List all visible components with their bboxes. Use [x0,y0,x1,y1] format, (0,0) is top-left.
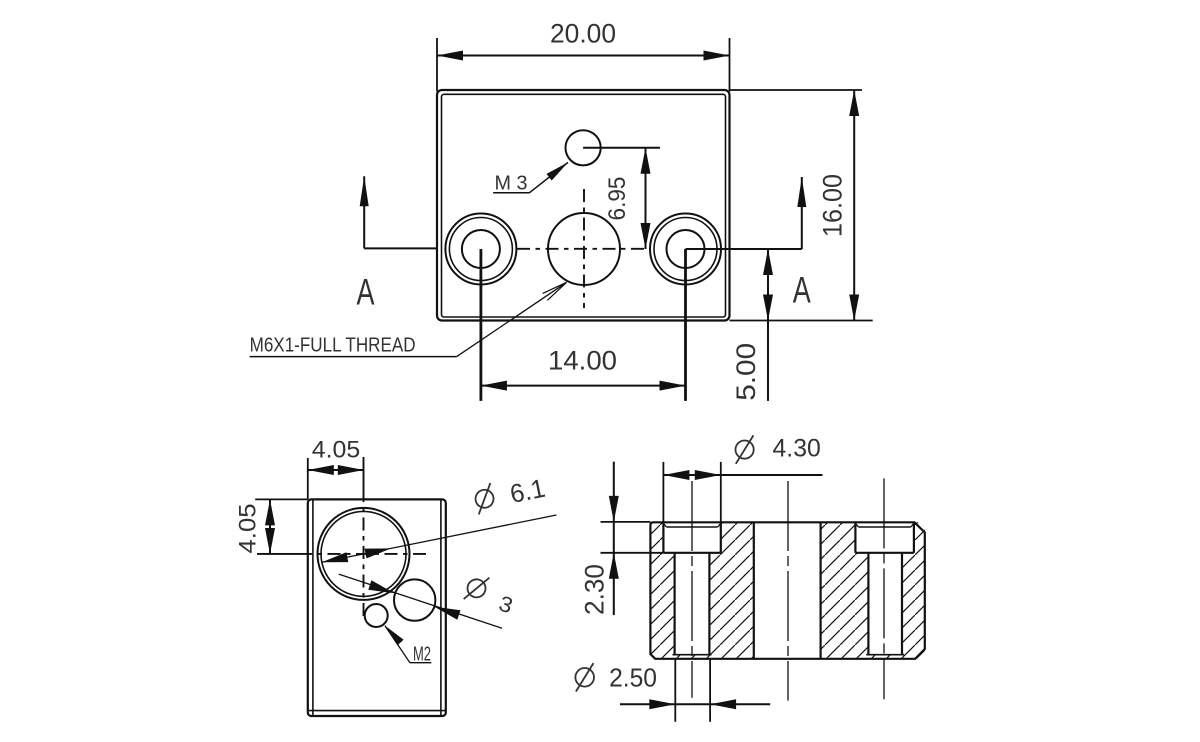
section A-A hatching [650,522,924,659]
right counterbore entry chamfer [859,526,911,528]
horizontal centerline side view [257,553,299,555]
svg-text:4.05: 4.05 [235,504,262,554]
dimension dia 4.30 extension lines [662,462,664,522]
vertical centerline side view dashed [363,489,365,621]
M6 hole walls [753,522,755,659]
svg-text:2.30: 2.30 [580,564,610,615]
svg-text:14.00: 14.00 [548,346,617,376]
dimension 6.95 extension line [583,147,660,149]
left counterbore entry chamfer [667,526,718,528]
dimension dia 2.50 extension lines [674,659,676,722]
svg-text:M 3: M 3 [495,172,528,195]
section line A-A left arm [364,247,437,249]
dimension 14.00 line [481,385,686,387]
side view chamfer line right [440,499,442,716]
left counterbore walls [662,522,664,553]
svg-text:20.00: 20.00 [550,18,616,48]
dimension 4.05 left extension line [255,498,308,500]
dimension dia 4.30 line [663,474,822,476]
heater cartridge hole 6.1 outer [318,508,410,600]
left hole exit chamfer [673,654,712,656]
section block outline [650,522,924,659]
dimension dia 3 text [462,572,518,618]
grub screw hole M2 [365,604,388,627]
dimension dia 6.1 text [473,473,548,516]
dimension 2.30 line [613,462,615,615]
section centerline left hole [691,481,693,698]
left counterbore bottom [663,552,720,554]
right hole exit chamfer [866,654,904,656]
tapped hole M3 [566,130,601,165]
center hole M6 (dashed circle centerlines) [548,213,620,285]
right screw hole walls [867,553,869,655]
dimension 14.00 extension lines [479,249,482,401]
dimension 4.05 top line [308,469,364,471]
svg-text:16.00: 16.00 [818,174,848,237]
heater cartridge hole 6.1 inner [321,511,406,596]
label M2 leader [385,626,410,663]
left screw hole walls [673,553,675,655]
svg-text:M2: M2 [413,643,431,666]
svg-text:2.50: 2.50 [609,665,657,693]
side view chamfer line left [312,499,314,716]
dimension 4.05 left line [269,499,271,554]
dimension 20.00 extension lines [436,38,438,92]
svg-text:M6X1-FULL THREAD: M6X1-FULL THREAD [250,334,416,357]
M6 vertical centerline [583,189,585,308]
dimension dia 6.1 leader line [322,515,557,562]
dimension 2.30 extension lines [601,521,651,523]
dimension dia 2.50 text [575,668,594,687]
section centerline right hole [883,478,885,699]
svg-text:A: A [793,270,811,311]
dimension 4.05 top extension line [307,458,309,499]
dimension 16.00 extension lines [730,89,863,91]
dimension dia 2.50 line [620,703,770,705]
dimension dia 4.30 text [736,441,754,459]
right counterbore walls [854,522,856,553]
label M3 leader [493,192,529,194]
top face chamfer inner outline [442,94,726,317]
svg-text:A: A [357,272,375,313]
section line A-A right arm [686,248,802,250]
svg-text:6.95: 6.95 [604,177,631,221]
horizontal centerline through holes [517,248,650,250]
horizontal centerline side view dashed [299,553,430,555]
section centerline M6 [787,481,789,701]
right counterbore bottom [855,552,914,554]
dimension 5.00 line [767,249,769,401]
vertical centerline side view [363,457,365,489]
svg-text:4.30: 4.30 [773,435,821,463]
svg-text:4.05: 4.05 [312,436,360,463]
counterbored hole left [445,214,516,285]
counterbored hole right [650,214,721,285]
side view: block outline [308,499,446,716]
dimension dia 3 leader line [339,574,502,628]
dimension 20.00 line [437,55,730,57]
thermistor hole 3 [394,579,435,620]
top view: heater block outline [437,90,730,321]
label M6X1-FULL THREAD leader [250,356,457,358]
dimension 6.95 line [645,148,647,249]
svg-text:5.00: 5.00 [731,343,761,401]
dimension 16.00 line [853,90,855,321]
side view chamfer line bottom [308,710,446,712]
